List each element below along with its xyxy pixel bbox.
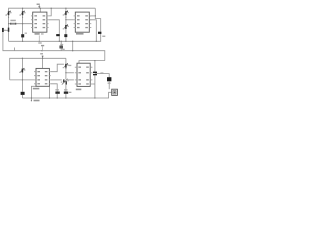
wire Q7 chain	[21, 58, 23, 68]
wire Q8 to R4	[65, 85, 67, 92]
wire lower left rail	[10, 58, 66, 80]
wire Q4 vertical	[65, 8, 67, 41]
wire IC1 pin1 feed	[49, 8, 52, 16]
wire IC4 right out	[92, 83, 95, 85]
wire Q8 to IC4	[68, 79, 74, 81]
wire speaker top	[95, 74, 109, 78]
label GND bottom	[34, 100, 40, 102]
junction dots	[8, 8, 97, 102]
wire IC4 top loop	[79, 61, 105, 64]
resistor R3	[55, 89, 59, 94]
wire mic link	[4, 29, 9, 31]
wire R2 drop	[60, 41, 62, 45]
capacitor C1	[56, 34, 60, 36]
label net GND mid	[41, 45, 44, 51]
wire IC3 left row	[10, 79, 34, 81]
wire D1 chain	[65, 58, 67, 64]
capacitor C4	[93, 72, 103, 76]
wire mid rail GND1	[9, 40, 102, 42]
wire jack left	[95, 92, 112, 98]
IC U4 amp	[75, 63, 93, 90]
wire top rail VCC	[9, 8, 96, 41]
label speaker	[108, 83, 111, 84]
wire IC2 left pin2	[66, 19, 74, 21]
wire IC4 pin2	[66, 72, 74, 74]
wire rails link	[72, 41, 74, 50]
supply flag top	[37, 4, 41, 9]
wire IC1 top feed	[39, 8, 41, 12]
wire bottom rail GND2	[22, 97, 95, 99]
transistor pair Q8 Q9	[61, 79, 69, 85]
label near D1	[69, 65, 72, 66]
capacitor C3	[21, 92, 25, 95]
wire C1 to GND1	[58, 36, 60, 41]
IC U1 555	[31, 12, 49, 35]
capacitor R2 pair	[59, 44, 64, 50]
capacitor C6 blob	[21, 33, 27, 38]
transistor Q4	[63, 10, 69, 15]
wire rail end to C2	[95, 8, 100, 32]
resistor R4	[64, 89, 72, 94]
wire IC3 bottom right drop	[49, 86, 51, 98]
transistor Q5	[63, 24, 69, 29]
capacitor C2	[98, 32, 105, 37]
capacitor C5 polarized bar	[8, 28, 10, 32]
transistor Q1	[5, 10, 11, 15]
transistor Q2	[19, 10, 25, 15]
wire R3 drop	[56, 94, 58, 98]
wire IC3 right pin1 loop	[51, 64, 64, 72]
wire IC3 bottom left drop	[31, 86, 36, 100]
capacitor C6b blob	[64, 34, 67, 37]
wire C2 to GND1	[100, 34, 102, 41]
jack J1	[112, 89, 118, 95]
diode D1	[63, 63, 69, 68]
wire R1 row	[9, 23, 33, 25]
wire stub rail2	[14, 48, 16, 51]
wire IC2 right pin2	[89, 20, 96, 42]
wire IC3 top feed	[42, 56, 44, 69]
speaker LS1	[107, 77, 111, 81]
IC U3 555	[33, 68, 51, 89]
wire C4 chain	[94, 61, 96, 72]
supply flag bottom	[40, 53, 44, 58]
wire IC1 gnd drop	[38, 35, 40, 41]
wire Q2 vertical	[22, 8, 24, 41]
wire IC3 pin3 to Q8	[51, 79, 62, 81]
wire speaker to jack	[108, 82, 110, 90]
wire IC3 right pin4 to R3	[51, 84, 57, 92]
IC U2 555	[74, 12, 92, 35]
resistor R1	[10, 20, 16, 25]
label under rail1	[38, 42, 41, 43]
wire IC2 right pin1	[89, 15, 95, 17]
microphone MIC	[2, 28, 6, 32]
wire mic to mid rail	[3, 32, 105, 61]
wire IC1 pin2 to C1	[49, 20, 60, 34]
transistor Q7	[19, 68, 25, 73]
